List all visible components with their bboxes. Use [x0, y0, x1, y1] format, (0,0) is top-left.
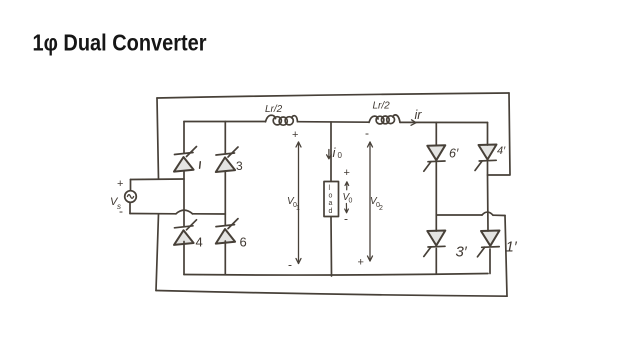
svg-text:4: 4 [196, 235, 203, 250]
svg-text:3′: 3′ [456, 244, 468, 261]
svg-text:+: + [117, 178, 123, 190]
svg-text:ir: ir [415, 108, 423, 122]
svg-text:-: - [365, 126, 369, 140]
svg-text:6′: 6′ [449, 147, 459, 161]
svg-text:+: + [344, 167, 350, 179]
svg-text:6: 6 [240, 235, 247, 250]
svg-text:4′: 4′ [497, 145, 506, 157]
svg-text:-: - [119, 204, 123, 218]
svg-text:Lr/2: Lr/2 [373, 101, 391, 112]
svg-text:0: 0 [338, 151, 343, 160]
svg-text:+: + [358, 257, 364, 269]
svg-text:1φ Dual Converter: 1φ Dual Converter [33, 29, 208, 56]
svg-text:+: + [292, 129, 298, 141]
svg-text:1′: 1′ [506, 239, 518, 256]
svg-text:-: - [344, 212, 348, 226]
svg-text:a: a [329, 200, 333, 207]
svg-text:2: 2 [379, 205, 383, 212]
svg-text:o: o [329, 193, 333, 200]
svg-text:-: - [288, 258, 292, 272]
svg-text:3: 3 [236, 159, 243, 173]
svg-text:0: 0 [349, 198, 353, 205]
svg-text:1: 1 [296, 205, 300, 212]
svg-text:d: d [329, 208, 333, 215]
svg-text:Lr/2: Lr/2 [265, 104, 283, 115]
